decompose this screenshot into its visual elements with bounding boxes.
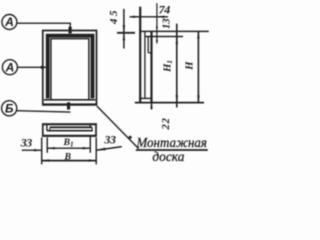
svg-text:А: А xyxy=(4,15,14,29)
dimension 45: upper arrowhead xyxy=(123,25,125,32)
side view: extension line V3 xyxy=(156,3,158,43)
side view: back face line V2 xyxy=(150,31,152,103)
svg-text:В: В xyxy=(64,152,72,163)
dimension 33 left: arrowhead xyxy=(34,149,42,151)
dimension 74: left arrowhead xyxy=(133,16,140,18)
svg-text:Б: Б xyxy=(5,102,14,116)
side view: groove bottom H3 xyxy=(148,52,151,54)
side view: top reference line L1 xyxy=(140,30,209,32)
dimension 33 right: line xyxy=(96,147,122,151)
extension line B1 left inner xyxy=(46,137,48,152)
front view: frame middle rectangle (thick moulding, open bottom) xyxy=(48,36,93,99)
bottom view: board slab bottom edge xyxy=(47,130,93,132)
leader A2 arrowhead xyxy=(41,66,49,69)
dimension B: line xyxy=(42,160,96,162)
side view: front face line V1 xyxy=(139,7,141,103)
dimension 22: arrowhead xyxy=(150,103,152,109)
bottom view: right rail inner edge xyxy=(89,124,91,127)
dimension 22: line below bottom edge xyxy=(151,103,153,110)
svg-text:В1: В1 xyxy=(63,137,74,149)
svg-text:доска: доска xyxy=(152,150,184,165)
dimension 45: lower arrowhead xyxy=(123,33,125,40)
side view: inner line V1b xyxy=(144,32,146,99)
dimension 45: line xyxy=(123,9,125,49)
leader line to title (diagonal) xyxy=(97,106,139,149)
dimension B: right arrowhead xyxy=(89,159,97,161)
svg-text:33: 33 xyxy=(103,133,116,147)
dimension H: bottom arrowhead xyxy=(197,95,199,102)
front view: frame outer rectangle xyxy=(43,31,97,105)
dimension H: line xyxy=(197,31,199,103)
extension line B right outer xyxy=(95,137,97,164)
dimension H1: top arrowhead xyxy=(176,37,178,44)
dimension 74: right arrowhead xyxy=(157,16,164,18)
bottom view: board left step xyxy=(49,127,51,130)
front view: frame inner bottom edge xyxy=(44,99,95,101)
dimension 13: upper arrowhead xyxy=(156,27,158,32)
dimension 33 left: line xyxy=(22,149,42,151)
dimension B: left arrowhead xyxy=(42,159,50,161)
svg-text:Н: Н xyxy=(185,61,196,71)
side view: groove line V2b xyxy=(147,37,149,53)
title underline (shelf) xyxy=(136,149,208,151)
extension line B left outer xyxy=(41,137,43,164)
callout circle A2 xyxy=(2,60,17,75)
dimension H1: bottom arrowhead xyxy=(176,95,178,102)
svg-text:22: 22 xyxy=(161,117,172,130)
leader dot xyxy=(129,136,132,139)
dimension B1: right arrowhead xyxy=(83,147,91,149)
leader A1 xyxy=(17,23,70,28)
pin bottom (fastener) xyxy=(67,102,70,109)
callout circle A1 xyxy=(2,15,17,30)
svg-text:33: 33 xyxy=(20,135,33,149)
dimension 13: lower arrowhead xyxy=(156,37,158,42)
bottom view: outer bottom edge (thick) xyxy=(42,135,97,137)
bottom view: board slab top edge xyxy=(50,126,92,128)
front view: frame outer bottom edge (thick) xyxy=(42,103,97,105)
dimension B1: left arrowhead xyxy=(47,147,55,149)
extension line B1 right inner xyxy=(89,137,91,153)
dimension B1: line xyxy=(47,147,90,149)
callout circle B (Б) xyxy=(2,101,17,116)
bottom view: board right step xyxy=(91,127,93,130)
svg-text:45: 45 xyxy=(108,8,120,25)
dimension H: top arrowhead xyxy=(197,31,199,38)
side view: board seat line L2 xyxy=(145,36,183,38)
bottom view: board outer rectangle xyxy=(43,124,96,136)
leader A2 xyxy=(17,66,42,68)
leader B xyxy=(17,111,71,112)
svg-text:Монтажная: Монтажная xyxy=(136,136,207,151)
bottom view: outer top edge (thick) xyxy=(42,123,97,125)
dimension 45: extension bar xyxy=(117,32,135,34)
bottom view: left rail inner edge xyxy=(46,124,48,131)
dimension 33 right: arrowhead xyxy=(96,148,105,151)
svg-text:Н1: Н1 xyxy=(162,60,174,73)
front view: frame inner rectangle (open bottom) xyxy=(51,39,89,99)
dimension 74: line xyxy=(130,16,169,18)
pin top (fastener) xyxy=(69,27,72,34)
svg-text:74: 74 xyxy=(159,2,171,16)
side view: bottom inner edge B1 xyxy=(139,97,151,99)
svg-text:13: 13 xyxy=(161,19,172,30)
svg-text:А: А xyxy=(5,60,15,74)
dimension H1: line xyxy=(176,24,178,108)
side view: bottom edge B2 xyxy=(135,102,204,104)
